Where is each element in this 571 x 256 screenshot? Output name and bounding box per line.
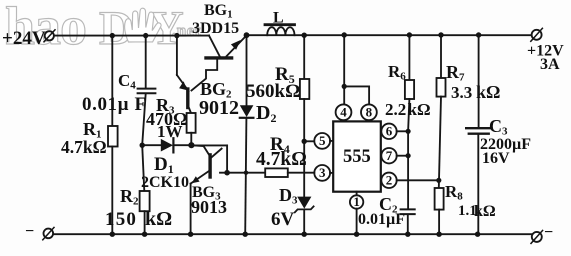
svg-text:1: 1 [353, 194, 360, 209]
svg-text:8: 8 [366, 105, 373, 120]
svg-text:0.01µ F: 0.01µ F [82, 94, 147, 115]
svg-text:−: − [544, 224, 553, 241]
svg-text:−: − [25, 223, 34, 240]
svg-text:2: 2 [386, 173, 393, 188]
svg-text:3DD15: 3DD15 [192, 20, 239, 37]
svg-text:4.7kΩ: 4.7kΩ [256, 149, 307, 170]
svg-text:6V: 6V [271, 209, 295, 230]
svg-text:L: L [273, 10, 284, 27]
svg-text:5: 5 [319, 133, 326, 148]
svg-text:555: 555 [343, 147, 371, 167]
svg-text:kΩ: kΩ [474, 203, 496, 220]
svg-text:0.01µF: 0.01µF [358, 211, 405, 228]
svg-text:+24V: +24V [2, 28, 46, 49]
svg-text:560kΩ: 560kΩ [246, 81, 300, 102]
svg-text:6: 6 [386, 124, 393, 139]
svg-text:kΩ: kΩ [145, 208, 172, 230]
svg-text:4.7kΩ: 4.7kΩ [61, 137, 107, 157]
svg-text:9013: 9013 [191, 197, 227, 217]
svg-text:3A: 3A [540, 56, 560, 73]
svg-text:16V: 16V [482, 150, 510, 167]
svg-text:1W: 1W [157, 122, 183, 141]
svg-text:7: 7 [386, 148, 393, 163]
svg-text:4: 4 [340, 105, 347, 120]
svg-text:2.2: 2.2 [385, 100, 406, 119]
svg-text:3: 3 [319, 165, 326, 180]
svg-text:150: 150 [105, 209, 137, 230]
svg-text:2CK10: 2CK10 [141, 174, 189, 191]
svg-text:9012: 9012 [199, 97, 239, 119]
svg-text:kΩ: kΩ [476, 82, 500, 102]
svg-text:kΩ: kΩ [408, 100, 431, 119]
svg-text:3.3: 3.3 [451, 83, 472, 102]
